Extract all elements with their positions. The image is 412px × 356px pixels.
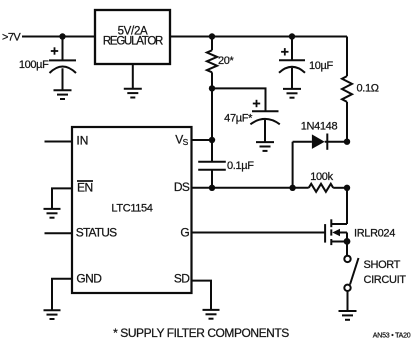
svg-text:IN: IN bbox=[76, 134, 88, 148]
wire STATUS stub bbox=[45, 232, 73, 234]
switch SW1 short circuit bbox=[344, 256, 358, 311]
diode D1 1N4148 bbox=[293, 134, 347, 150]
node junction dot 100k right bbox=[344, 185, 350, 191]
IC U1 LTC1154 bbox=[72, 127, 192, 293]
ground below switch bbox=[339, 311, 357, 320]
wire DS line from pin bbox=[192, 187, 309, 189]
label IRLR024 bbox=[354, 228, 395, 240]
wire G pin to gate bbox=[192, 232, 326, 234]
regulator U2 5V/2A box bbox=[95, 10, 170, 64]
value label 100uF bbox=[19, 59, 49, 71]
transistor Q1 IRLR024 n-channel MOSFET bbox=[325, 188, 347, 256]
node junction dot at diode branch bbox=[289, 185, 295, 191]
svg-text:STATUS: STATUS bbox=[76, 226, 117, 240]
svg-text:0.1µF: 0.1µF bbox=[227, 160, 254, 172]
node junction dot 20 tap bbox=[209, 33, 215, 39]
wire IN stub bbox=[45, 141, 73, 143]
node junction dot 47uF branch bbox=[209, 85, 215, 91]
label 100k bbox=[310, 171, 333, 183]
note supply filter components bbox=[113, 326, 289, 340]
svg-text:LTC1154: LTC1154 bbox=[111, 203, 152, 215]
wire VS branch down from 20* bbox=[211, 88, 213, 161]
label 1N4148 bbox=[301, 121, 338, 133]
svg-text:REGULATOR: REGULATOR bbox=[103, 36, 163, 48]
wire 100k to drain node bbox=[333, 187, 347, 189]
svg-text:SHORT: SHORT bbox=[364, 259, 401, 271]
node junction dot diode cathode bbox=[344, 139, 350, 145]
svg-text:100µF: 100µF bbox=[19, 59, 49, 71]
value label 10uF bbox=[309, 60, 334, 72]
svg-text:G: G bbox=[180, 226, 189, 240]
svg-text:AN53 • TA20: AN53 • TA20 bbox=[373, 332, 411, 339]
wire regulator to ground bbox=[132, 64, 134, 89]
wire regulator output top rail bbox=[170, 36, 347, 38]
svg-text:* SUPPLY FILTER COMPONENTS: * SUPPLY FILTER COMPONENTS bbox=[113, 326, 289, 340]
EN overline bar bbox=[77, 180, 93, 182]
ground below 100uF bbox=[54, 90, 72, 99]
ground below regulator bbox=[124, 89, 142, 98]
svg-text:DS: DS bbox=[174, 180, 190, 194]
svg-text:>7V: >7V bbox=[2, 31, 21, 43]
node junction dot 10uF tap bbox=[289, 33, 295, 39]
svg-text:SD: SD bbox=[174, 272, 190, 286]
node junction dot VS bbox=[209, 137, 215, 143]
node junction dot DS at 0.1uF bbox=[209, 185, 215, 191]
node junction dot at 100uF tap bbox=[59, 33, 65, 39]
value label 47uF* bbox=[224, 113, 253, 125]
resistor R3 100k bbox=[309, 184, 334, 192]
svg-text:IRLR024: IRLR024 bbox=[354, 228, 395, 240]
figure tag AN53 TA20 bbox=[373, 332, 411, 339]
node junction dot MOSFET source bbox=[344, 238, 351, 245]
svg-text:47µF*: 47µF* bbox=[224, 113, 253, 125]
node >7V input label bbox=[2, 31, 21, 43]
svg-text:20*: 20* bbox=[218, 55, 235, 67]
ground below 47uF bbox=[256, 142, 274, 151]
svg-text:EN: EN bbox=[77, 181, 93, 195]
value label 0.1uF bbox=[227, 160, 254, 172]
resistor R2 0.1ohm bbox=[342, 76, 352, 142]
svg-text:1N4148: 1N4148 bbox=[301, 121, 338, 133]
value label 0.1ohm bbox=[357, 82, 379, 94]
wire VS pin to node bbox=[192, 139, 213, 141]
ground at SD bbox=[203, 310, 220, 319]
wire branch over to 47uF bbox=[212, 88, 266, 111]
capacitor C1 100uF polarized bbox=[49, 37, 76, 91]
ground below 10uF bbox=[283, 89, 301, 98]
capacitor C2 47uF polarized bbox=[250, 100, 279, 142]
wire diode anode down to 100k line bbox=[292, 142, 294, 188]
wire EN pin to ground bbox=[52, 188, 72, 209]
svg-text:0.1Ω: 0.1Ω bbox=[357, 82, 379, 94]
resistor R1 20* bbox=[207, 37, 217, 89]
ground at GND pin bbox=[44, 310, 61, 319]
capacitor C3 10uF polarized bbox=[279, 37, 305, 89]
wire top rail corner down to 0.1ohm bbox=[346, 37, 348, 77]
svg-text:10µF: 10µF bbox=[309, 60, 334, 72]
wire 0.1uF to DS line bbox=[211, 170, 213, 188]
wire SD pin to ground bbox=[192, 281, 212, 310]
ground at EN bbox=[44, 209, 61, 218]
svg-text:CIRCUIT: CIRCUIT bbox=[364, 274, 407, 286]
wire GND pin to ground bbox=[52, 279, 72, 311]
svg-text:100k: 100k bbox=[310, 171, 333, 183]
value label 20* bbox=[218, 55, 235, 67]
label SHORT CIRCUIT bbox=[364, 259, 407, 286]
svg-text:GND: GND bbox=[76, 272, 102, 286]
capacitor C4 0.1uF bbox=[198, 162, 226, 170]
wire input rail to regulator bbox=[22, 36, 95, 38]
